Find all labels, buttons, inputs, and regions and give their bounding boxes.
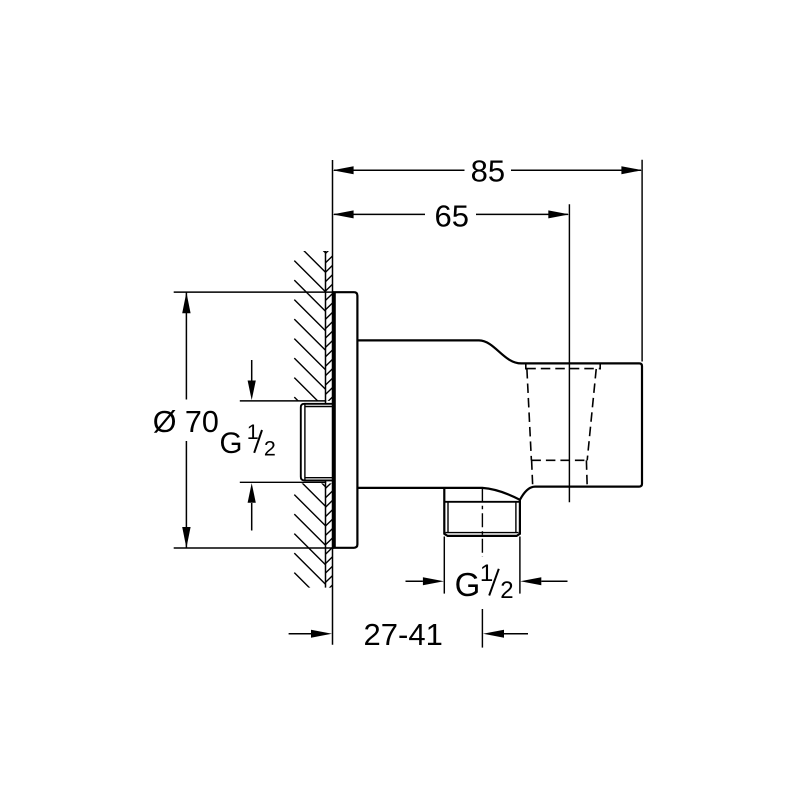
svg-text:Ø 70: Ø 70 — [153, 405, 219, 439]
dimension 65: dimension line — [334, 213, 568, 215]
dimension 65: right extension line — [568, 204, 570, 502]
wall hatching short ticks — [326, 247, 333, 592]
dimension diameter 70: top arrowhead — [182, 292, 190, 313]
outlet thread dimension: left arrow — [406, 577, 444, 585]
dimension 27-41: right arrow — [483, 630, 528, 638]
inlet connection box behind wall — [301, 404, 333, 481]
outlet thread dimension: right extension line — [519, 537, 521, 594]
svg-text:1: 1 — [247, 420, 259, 444]
dimension diameter 70: bottom arrowhead — [182, 527, 190, 548]
spigot thread core lines — [446, 502, 519, 533]
outlet centerline (dash-dot) — [481, 488, 483, 557]
wall back line — [325, 251, 327, 588]
svg-text:G: G — [220, 427, 243, 460]
svg-text:G: G — [455, 566, 481, 603]
svg-text:1: 1 — [480, 560, 493, 587]
wall hatching long strokes — [294, 222, 325, 624]
holder socket rim edges — [526, 364, 600, 370]
dimension 27-41: left arrow — [289, 630, 332, 638]
inlet thread length: upper arrow — [248, 360, 256, 400]
inlet thread length: top extension line — [240, 400, 326, 402]
svg-text:85: 85 — [471, 154, 505, 189]
dimension 27-41: value label — [364, 617, 443, 652]
dimension 85: right extension line — [641, 160, 643, 362]
outlet thread dimension: right arrow — [520, 577, 567, 585]
flange (escutcheon, side view) — [334, 292, 357, 548]
outlet thread label G 1/2 — [455, 560, 514, 604]
body outline: top edge, holder cylinder, right edge, bottom, spigot sides — [357, 340, 642, 536]
svg-text:2: 2 — [264, 436, 276, 460]
holder socket hidden outline (dashed) — [526, 369, 600, 487]
dimension diameter 70: bottom extension line — [174, 547, 334, 549]
svg-text:2: 2 — [500, 577, 513, 604]
inlet thread label G 1/2 — [220, 420, 276, 461]
dimension 85: value label — [471, 154, 505, 189]
inlet thread length: lower arrow — [248, 483, 256, 530]
outlet thread dimension: left extension line — [443, 537, 445, 594]
dimension 27-41: right extension line — [481, 609, 483, 648]
dimension 85: dimension line — [334, 169, 641, 171]
dimension 85: right arrowhead — [621, 166, 642, 174]
svg-text:65: 65 — [435, 198, 469, 233]
body bottom edge (left of spigot) with curved transition — [357, 488, 520, 500]
dimension 85: left arrowhead — [333, 166, 354, 174]
inlet thread length: bottom extension line — [240, 481, 326, 483]
wall face line / shared extension line — [332, 160, 334, 645]
spigot thread shoulder line — [444, 501, 520, 503]
dimension diameter 70: top extension line — [174, 291, 334, 293]
dimension diameter 70: dimension line — [185, 292, 187, 548]
dimension diameter 70: value label — [153, 405, 219, 439]
dimension 65: right arrowhead — [548, 210, 569, 218]
dimension 65: left arrowhead — [333, 210, 354, 218]
svg-text:27-41: 27-41 — [364, 617, 443, 652]
dimension 65: value label — [435, 198, 469, 233]
